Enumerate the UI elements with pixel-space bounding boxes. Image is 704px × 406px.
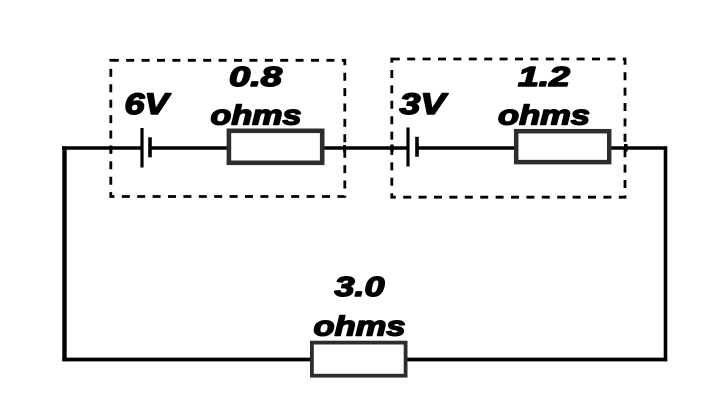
junction tick: wire crossing left dashed edge of 6V box — [110, 146, 113, 154]
wire: top branch, 3V battery to top-right corner — [417, 146, 666, 150]
junction dot: wire crossing left dashed edge of 3V box — [390, 145, 393, 152]
battery B1 (6V) short plate — [148, 137, 152, 157]
wire: top branch, 6V battery to 3V battery — [150, 146, 408, 150]
wire: left vertical — [62, 146, 66, 361]
wire: right vertical — [664, 146, 668, 361]
resistor R3 (3.0 ohms) body — [312, 343, 406, 376]
svg-text:3V: 3V — [400, 88, 449, 121]
dashed box around 6V source (left) — [111, 60, 345, 196]
resistor R1 (0.8 ohms) body — [229, 131, 322, 163]
svg-text:0.8: 0.8 — [229, 61, 283, 92]
wire: bottom branch — [62, 358, 667, 362]
svg-text:ohms: ohms — [498, 100, 590, 131]
junction tick: wire crossing right dashed edge of 6V box — [343, 145, 346, 153]
svg-text:ohms: ohms — [211, 100, 302, 131]
battery B2 (3V) short plate — [415, 137, 419, 157]
battery B2 (3V) long plate — [406, 128, 409, 167]
dashed box around 3V source (right) — [392, 59, 625, 197]
svg-text:6V: 6V — [125, 88, 172, 121]
svg-text:1.2: 1.2 — [518, 61, 571, 92]
battery B1 (6V) long plate — [140, 128, 143, 168]
svg-text:ohms: ohms — [314, 311, 406, 342]
wire: top branch, left segment to 6V battery — [62, 146, 142, 150]
resistor R2 (1.2 ohms) body — [516, 131, 609, 162]
svg-text:3.0: 3.0 — [335, 271, 386, 302]
junction dot: wire crossing right dashed edge of 3V box — [624, 144, 628, 152]
